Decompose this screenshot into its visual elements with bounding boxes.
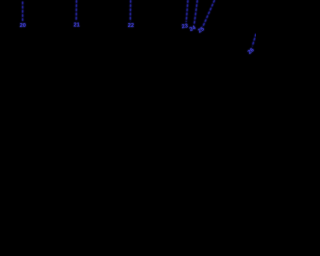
tick labels glow pass [20, 23, 256, 56]
gridlines glow pass [23, 0, 256, 46]
tick labels core pass [20, 23, 256, 56]
gridlines core pass [23, 0, 256, 46]
